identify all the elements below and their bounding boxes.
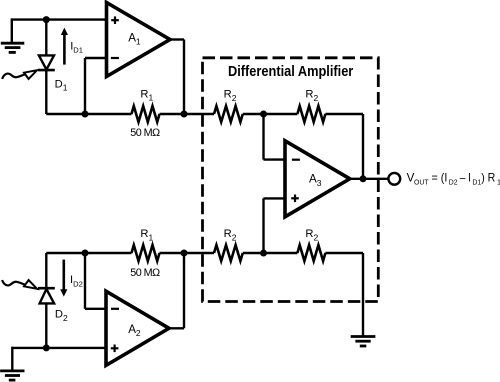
resistor R2 top-right [297, 106, 325, 122]
svg-text:50 MΩ: 50 MΩ [130, 267, 160, 279]
current arrow ID2 [60, 260, 67, 297]
resistor R1 bottom [132, 245, 160, 261]
wire bottom row segment 2 [160, 252, 215, 254]
wire A2 -input vertical [84, 253, 86, 309]
resistor R1 top [132, 106, 160, 122]
svg-text:50 MΩ: 50 MΩ [130, 127, 160, 139]
wire A1 +input from ground to op-amp [12, 18, 107, 20]
wire D2 cathode-side top [45, 253, 47, 288]
op-amp A1 [107, 3, 171, 77]
wire A3 -input horizontal [264, 158, 286, 160]
current arrow ID1 [61, 28, 68, 65]
ground A3 [351, 337, 376, 347]
photodiode D2 [38, 288, 55, 303]
wire bottom row segment 1 [46, 252, 131, 254]
svg-text:– I: – I [460, 171, 471, 184]
wire A1 output vertical [183, 40, 185, 115]
wire A3 +input vertical [262, 198, 264, 253]
wire bottom row segment 3 [243, 252, 298, 254]
dashed box differential amplifier [203, 58, 379, 302]
wire A3 -input vertical [262, 114, 264, 160]
wire D2 anode-side bottom [45, 303, 47, 348]
wire bottom ground row [12, 347, 106, 349]
op-amp A2 [106, 291, 169, 365]
resistor R2 bottom-left [214, 245, 243, 261]
svg-text:Differential Amplifier: Differential Amplifier [228, 64, 354, 80]
node A2 output [181, 250, 188, 257]
wire D1 anode-side bottom [45, 70, 47, 114]
wire top row segment 2 [160, 113, 215, 115]
wire A3 output [348, 178, 388, 180]
wire A3 +input horizontal [264, 197, 286, 199]
ground top-left [1, 43, 25, 52]
photodiode D1 [38, 55, 55, 70]
node A1 feedback left [82, 111, 89, 118]
wire A1 output horizontal [168, 38, 184, 40]
wire ground stub top-left [11, 18, 13, 43]
node bottom-left junction [43, 344, 50, 351]
svg-text:= (I: = (I [432, 171, 448, 184]
resistor R2 bottom-right [297, 245, 325, 261]
svg-text:D2: D2 [449, 177, 458, 186]
op-amp A3 [285, 141, 350, 217]
wire A2 -input horizontal [85, 308, 106, 310]
terminal VOUT [388, 173, 400, 185]
node top-left junction [43, 16, 50, 23]
wire to ground A3 [362, 253, 364, 337]
node A2 feedback left [82, 250, 89, 257]
node A3 +input bottom [260, 250, 267, 257]
ground bottom-left [0, 371, 24, 380]
svg-text:D1: D1 [472, 177, 481, 186]
svg-text:OUT: OUT [414, 177, 429, 186]
wire A3 feedback vertical [362, 114, 364, 179]
wire top row segment 4 [325, 113, 363, 115]
label VOUT equation [407, 171, 500, 186]
wire A1 -input vertical [84, 58, 86, 114]
node A1 output [181, 111, 188, 118]
wire A2 output vertical [183, 253, 185, 328]
node A3 output junction [360, 175, 367, 182]
svg-text:) R: ) R [481, 171, 495, 184]
light arrow into D2 [2, 280, 37, 289]
resistor R2 top-left [214, 106, 243, 122]
node A3 -input [260, 111, 267, 118]
wire D1 cathode-side top [45, 20, 47, 57]
wire ground stub bottom-left [11, 347, 13, 371]
wire bottom row segment 4 [325, 252, 363, 254]
wire top row segment 3 [243, 113, 298, 115]
wire A1 -input horizontal [85, 57, 107, 59]
wire A2 output horizontal [167, 327, 184, 329]
wire top row segment 1 [46, 113, 131, 115]
light arrow into D1 [2, 70, 37, 79]
